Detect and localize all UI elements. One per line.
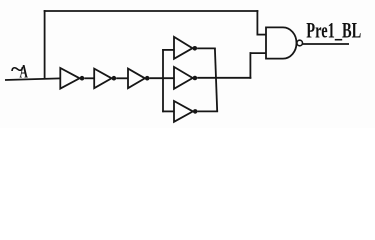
inverter U4 output bubble dot [193,46,198,51]
inverter U3 triangle [128,69,145,89]
wire feedforward riser up from input node [44,10,46,79]
inverter U5 output bubble dot [193,76,198,81]
wire stub into NAND input B [250,52,267,54]
wire U2 to U3 [116,77,128,79]
inverter U2 triangle [94,69,111,89]
wire left input rail of parallel bank [162,49,164,112]
wire rail to U4 input [162,49,174,51]
wire U6 output to right rail [198,110,219,112]
wire riser up to NAND input B [249,52,251,78]
wire feedforward top horizontal [44,10,259,12]
nand gate U7 body [266,27,296,58]
wire U5 output across rail to riser [197,77,251,79]
inverter U6 triangle (bottom parallel) [174,101,193,122]
nand gate U7 output bubble [297,40,303,46]
inverter U6 output bubble dot [193,109,198,114]
wire feedforward drop to NAND input A [256,10,258,35]
inverter U3 output bubble dot [145,76,150,81]
inverter U1 triangle [60,68,79,89]
wire output Pre1_BL [303,43,349,45]
wire U4 output to right rail [197,47,216,49]
inverter U1 output bubble dot [80,76,85,81]
inverter U5 triangle (middle parallel) [174,67,193,89]
wire U1 to U2 [84,77,94,79]
wire right output rail of parallel bank [215,48,217,111]
wire rail to U6 input [162,110,174,112]
inverter U2 output bubble dot [112,76,117,81]
inverter U4 triangle (top parallel) [174,37,193,59]
svg-text:Pre1_BL: Pre1_BL [306,17,361,42]
wire U3 to parallel bank input [150,77,175,79]
wire stub into NAND input A [257,34,267,36]
wire input from ~A to first inverter [5,78,60,80]
